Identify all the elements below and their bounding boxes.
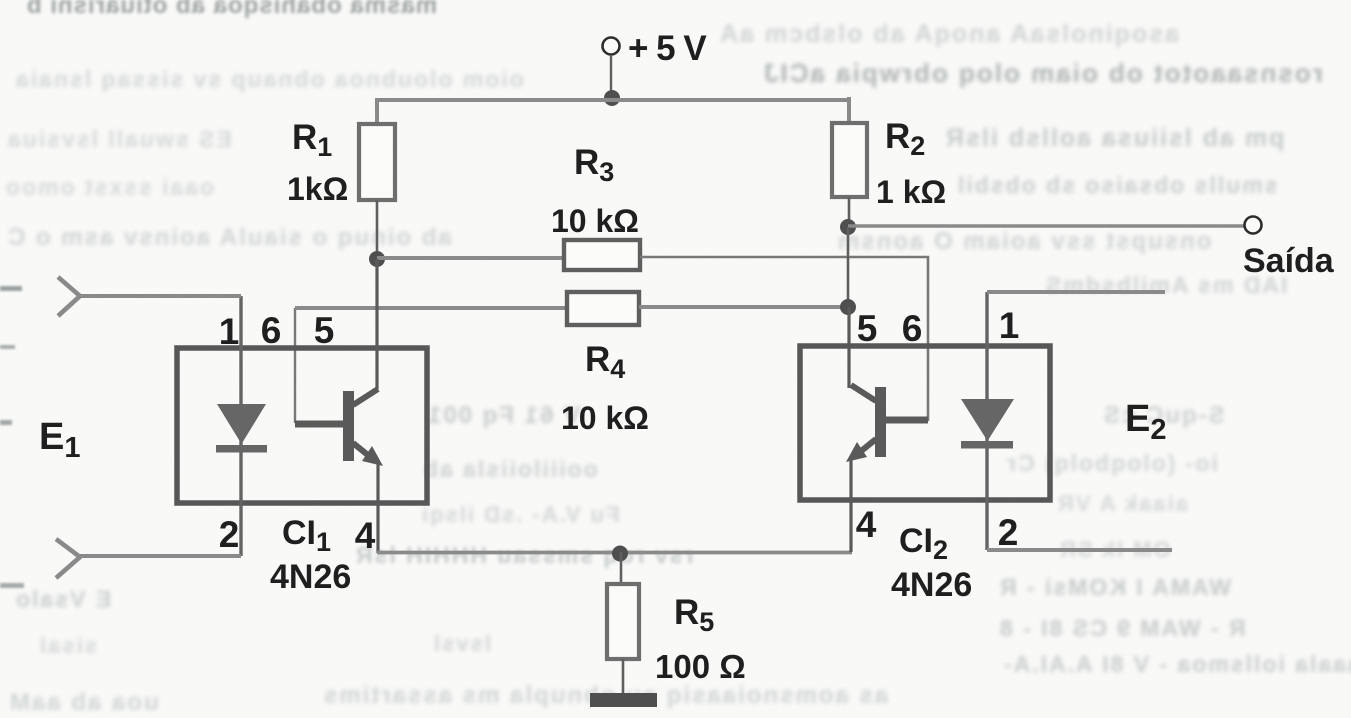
svg-text:10 kΩ: 10 kΩ xyxy=(561,400,649,436)
transistor Q2 collector stroke (CI2) xyxy=(851,385,876,401)
transistor Q1 emitter arrowhead (CI1) xyxy=(362,446,383,466)
LED D1 cathode bar (CI1) xyxy=(216,445,267,453)
svg-text:2: 2 xyxy=(219,514,240,555)
svg-text:R3: R3 xyxy=(574,143,614,187)
resistor R4 xyxy=(567,292,639,325)
svg-text:4N26: 4N26 xyxy=(891,566,972,604)
LED D2 triangle (CI2) xyxy=(961,399,1014,441)
transistor Q1 collector stroke (CI1) xyxy=(353,389,378,405)
svg-text:4: 4 xyxy=(355,515,376,556)
wire: E2 upper lead (pin 1) xyxy=(987,290,1165,294)
transistor Q2 base bar (CI2) xyxy=(875,387,886,457)
svg-text:E1: E1 xyxy=(39,416,81,464)
svg-text:R5: R5 xyxy=(674,593,714,637)
svg-text:2: 2 xyxy=(998,512,1019,553)
input arrow E1 upper xyxy=(58,277,80,316)
node C: R2/output junction xyxy=(840,219,856,235)
wire: rail to R1 xyxy=(375,98,379,124)
wire: E2 lower lead (pin 2) xyxy=(987,548,1172,552)
transistor Q2 emitter stroke (CI2) xyxy=(855,439,876,456)
svg-text:+ 5 V: + 5 V xyxy=(628,29,707,68)
wire: CI1 emitter to bottom rail (pin 4) xyxy=(376,463,379,553)
optocoupler CI1 package xyxy=(177,348,427,503)
svg-text:R4: R4 xyxy=(585,340,625,384)
svg-text:4N26: 4N26 xyxy=(270,558,351,596)
transistor Q2 emitter arrowhead (CI2) xyxy=(846,442,867,462)
wire: LED anode line (pin 1 through CI1) xyxy=(239,296,242,556)
wire: node B to CI2 collector (pin 5) xyxy=(847,307,850,388)
svg-text:1 kΩ: 1 kΩ xyxy=(876,174,946,210)
wire: R3 to CI2 base (pin 6) xyxy=(640,257,928,421)
svg-text:100 Ω: 100 Ω xyxy=(655,648,746,685)
resistor R3 xyxy=(564,240,640,270)
svg-text:5: 5 xyxy=(314,310,335,351)
transistor Q2 base lead (CI2) xyxy=(885,417,928,424)
wire: pin 2 to E1 lower input xyxy=(80,554,241,558)
wire: R4 left lead xyxy=(295,306,567,310)
wire: node A to R3 xyxy=(377,256,564,260)
transistor Q1 base lead (CI1) xyxy=(295,421,344,428)
wire: node C to node B xyxy=(847,227,850,307)
wire: CI1 base bracket from R4 xyxy=(294,308,296,423)
transistor Q1 base bar (CI1) xyxy=(343,391,354,461)
wire: LED anode line (pin 1 through CI2) xyxy=(985,292,988,550)
svg-text:5: 5 xyxy=(857,308,878,349)
wire: R4 to node B xyxy=(639,305,848,309)
input arrow E1 lower xyxy=(56,539,80,578)
wire: E1 upper input to pin 1 xyxy=(80,294,241,298)
svg-text:1kΩ: 1kΩ xyxy=(287,171,348,207)
svg-text:CI1: CI1 xyxy=(282,514,331,557)
ground xyxy=(590,693,657,707)
svg-text:E2: E2 xyxy=(1125,398,1167,446)
wire: rail to R2 xyxy=(847,97,851,123)
node A: R1/R3/collector junction xyxy=(369,251,385,267)
wire: top supply rail xyxy=(377,98,849,102)
optocoupler CI2 package xyxy=(800,346,1050,500)
svg-text:1: 1 xyxy=(219,311,240,352)
wire: node A to CI1 collector xyxy=(375,259,378,389)
wire: +5V terminal to top rail xyxy=(610,55,612,92)
svg-text:4: 4 xyxy=(856,504,877,545)
resistor R2 xyxy=(832,123,867,197)
svg-text:6: 6 xyxy=(902,308,923,349)
+5V terminal xyxy=(603,38,620,55)
resistor R5 xyxy=(607,584,639,659)
node D: R5 junction dot xyxy=(612,546,628,562)
svg-text:1: 1 xyxy=(999,305,1020,346)
resistor R1 xyxy=(359,124,395,200)
Saída terminal xyxy=(1245,217,1262,234)
transistor Q1 emitter stroke (CI1) xyxy=(353,443,374,460)
wire: R2 to node C xyxy=(848,197,851,227)
svg-text:R1: R1 xyxy=(292,118,332,162)
svg-text:CI2: CI2 xyxy=(899,522,948,565)
svg-text:Saída: Saída xyxy=(1243,242,1335,280)
LED D2 cathode bar (CI2) xyxy=(961,441,1013,449)
svg-text:10 kΩ: 10 kΩ xyxy=(551,203,639,239)
wire: R5 to ground xyxy=(622,659,625,694)
wire: CI2 emitter to bottom rail (pin 4) xyxy=(849,459,852,552)
node: +5V junction dot xyxy=(604,90,620,106)
wire: bottom rail xyxy=(377,551,852,555)
wire: R1 to node A xyxy=(376,200,379,259)
LED D1 triangle (CI1) xyxy=(217,404,266,444)
node B: R4/collector junction xyxy=(840,299,856,315)
svg-text:6: 6 xyxy=(261,310,282,351)
wire: node D to R5 xyxy=(620,552,623,584)
wire: output to Saída terminal xyxy=(848,224,1245,228)
svg-text:R2: R2 xyxy=(885,117,925,161)
